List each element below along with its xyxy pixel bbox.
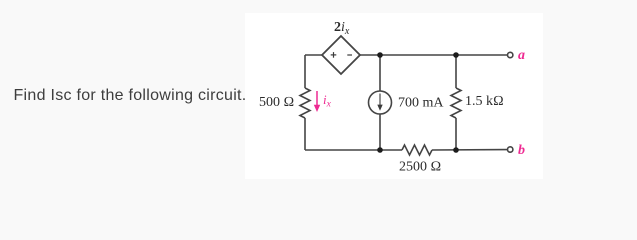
node dot bottom right (453, 147, 459, 153)
diamond minus sign (347, 54, 352, 56)
current source I1 circle (369, 91, 392, 114)
wire right vertical top (455, 55, 457, 88)
node dot bottom middle (377, 147, 383, 153)
svg-text:a: a (518, 48, 525, 63)
svg-text:ix: ix (323, 92, 332, 110)
svg-text:700 mA: 700 mA (398, 96, 444, 111)
node dot top right (453, 52, 459, 58)
current arrow ix (magenta) (314, 91, 320, 112)
svg-text:b: b (518, 143, 525, 158)
terminal b circle (508, 147, 513, 152)
wire middle vertical top (379, 55, 381, 91)
wire left vertical top (304, 55, 306, 88)
diamond plus sign (331, 52, 352, 58)
wire bottom left (305, 149, 402, 151)
terminal a circle (508, 52, 513, 57)
current source arrow (377, 94, 382, 111)
circuit panel (245, 13, 543, 179)
resistor 500 ohm (300, 88, 310, 118)
svg-text:500 Ω: 500 Ω (259, 95, 294, 110)
wire bottom right (432, 149, 507, 151)
question text (14, 87, 247, 105)
svg-text:2ix: 2ix (334, 20, 350, 37)
wire left vertical bottom (304, 118, 306, 150)
svg-text:2500 Ω: 2500 Ω (399, 160, 441, 175)
dependent source diamond (322, 36, 360, 74)
wire top middle (diamond right to terminal a) (360, 54, 507, 56)
wire top-left (305, 54, 322, 56)
node dot top middle (377, 52, 383, 58)
wire right vertical bottom (455, 118, 457, 150)
resistor 2500 ohm (402, 145, 432, 155)
wire middle vertical bottom (379, 114, 381, 151)
resistor 1.5 kohm (451, 88, 461, 118)
svg-text:1.5 kΩ: 1.5 kΩ (465, 94, 504, 109)
